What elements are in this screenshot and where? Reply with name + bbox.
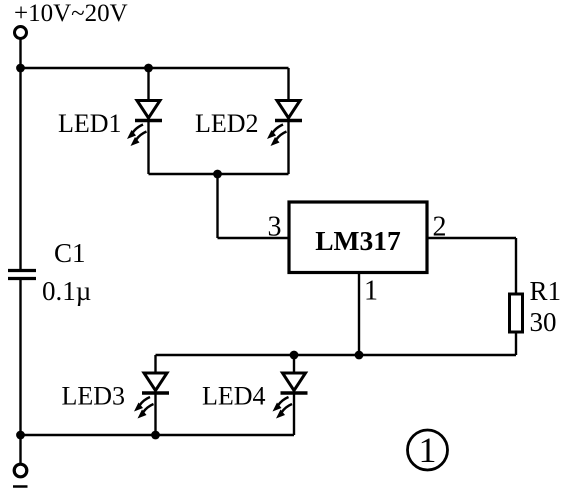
LED3 [134,373,169,419]
wire bottom-left rail [21,434,295,436]
wire top rail [21,67,289,69]
wire mid rail [149,173,289,175]
svg-text:0.1µ: 0.1µ [42,276,91,306]
LED4 [273,373,308,419]
wire LED1 top stub [147,68,149,101]
node LED3 bottom junction [151,431,160,440]
wire pin2 horizontal [427,237,516,239]
svg-text:+10V~20V: +10V~20V [14,0,128,27]
LED1 [127,101,162,147]
svg-text:1: 1 [419,430,437,470]
wire LED3 bottom stub [154,392,156,435]
figure number 1 [408,430,448,470]
node LED4 top junction [290,351,299,360]
wire left rail lower [19,280,21,435]
op-amp U1 LM317 [289,202,427,273]
svg-text:LM317: LM317 [315,225,401,256]
node pin1 junction [355,351,364,360]
terminal - (bottom) [14,464,27,477]
wire terminal to top rail [19,39,21,68]
svg-text:30: 30 [530,307,557,337]
wire LED4 top stub [293,355,295,374]
svg-text:3: 3 [268,212,282,243]
node mid junction [213,170,222,179]
svg-text:LED3: LED3 [62,382,126,411]
svg-text:1: 1 [364,276,378,307]
svg-text:LED2: LED2 [195,109,259,138]
wire LED4 bottom stub [293,392,295,435]
wire bottom rail [156,354,517,356]
node top-left junction [16,64,25,73]
svg-text:R1: R1 [530,276,562,306]
wire pin1 vertical [358,272,360,355]
wire left rail upper [19,68,21,269]
wire node to pin3 vertical [216,174,218,238]
wire LED1 bottom stub [147,120,149,174]
capacitor C1 [8,271,36,279]
node LED1 top junction [144,64,153,73]
wire pin2 vertical to R1 [515,238,517,294]
wire to bottom terminal [19,435,21,464]
resistor R1 [510,294,523,332]
minus mark [13,485,28,488]
wire LED3 top stub [154,355,156,374]
wire LED2 top stub [287,68,289,101]
wire LED2 bottom stub [287,120,289,174]
wire pin3 horizontal [218,237,290,239]
terminal + (top input) [15,27,27,39]
svg-text:LED4: LED4 [202,382,266,411]
svg-text:C1: C1 [54,238,86,268]
svg-text:LED1: LED1 [58,109,122,138]
LED2 [267,101,302,147]
wire R1 bottom [515,332,517,355]
node bottom-left junction [16,431,25,440]
